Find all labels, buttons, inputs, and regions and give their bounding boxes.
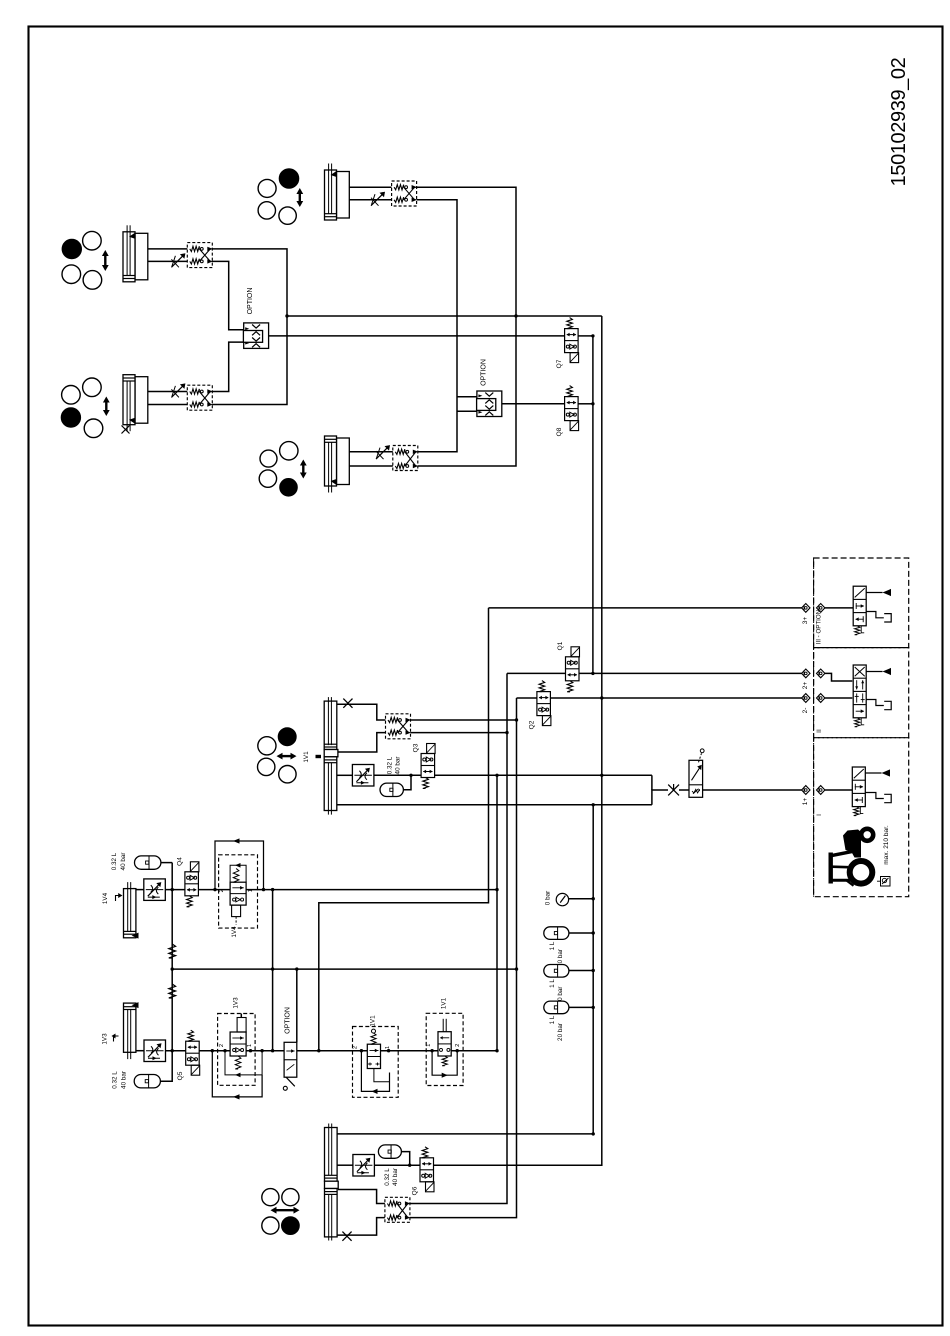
accumulator 0.32L cyl5: accumulator [380,756,403,796]
section II lever and tank [866,668,891,710]
wire: Q6 row from flow valve [337,1164,353,1166]
tractor valve block outer dashed boxes [814,558,909,648]
svg-text:1V1: 1V1 [303,751,310,763]
solenoid valve Q7 [556,318,579,369]
wire: cyl1 bottom port down to cyl4 upper port [417,200,457,452]
hose marks [169,944,176,958]
dash-dot separation line (tractor interface) [813,558,815,897]
svg-text:I: I [816,814,823,816]
wire: cross pilot vertical 1V4 to 1V3 row [272,890,274,1051]
svg-text:2: 2 [353,1046,359,1049]
cylinder 1V1 center suspension (tandem) [324,697,338,815]
wire: cyl6 mid port to throttle [338,1190,385,1204]
wire: 3+ line [489,607,802,609]
wire: common trunk y=316 [287,315,602,317]
solenoid valve Q3 [413,743,436,788]
accumulator 1L no2: accumulator [544,965,569,1005]
1V3 bypasses with check arrows [212,1051,262,1100]
plugged port X on 1+ line [668,784,679,795]
wire: 1V4 accumulator link [161,862,172,864]
svg-text:1V4: 1V4 [231,926,238,938]
wire: 3+ vertical down with jog to 1V3 row [319,608,489,1051]
wire: cyl5 throttle upper out [411,719,517,721]
svg-text:1V3: 1V3 [233,997,240,1009]
wire: vertical B P-line to 1V4 and 1V3 row ends [496,775,498,1051]
svg-text:1 L: 1 L [549,1015,556,1024]
wire: trunk right end down to 2- line [432,316,602,1165]
pressure gauge 0 bar [545,891,569,906]
svg-text:0.32 L: 0.32 L [387,756,394,774]
flow control cyl5: flow control valve [352,765,374,787]
svg-text:1V1: 1V1 [370,1015,377,1027]
svg-text:OPTION: OPTION [247,288,254,315]
plugged port X cyl5 top [343,699,352,708]
svg-text:1V3: 1V3 [102,1033,109,1045]
throttle check block cylinder 4: double throttle check valve [376,445,418,470]
svg-text:1V1: 1V1 [441,997,448,1009]
wire: cyl5 lower port to flow valve [337,774,353,776]
svg-text:2: 2 [455,1044,461,1047]
svg-text:max. 210 bar.: max. 210 bar. [883,825,890,865]
cylinder 1V3 tilt ram [124,1002,139,1059]
svg-text:1: 1 [247,1044,253,1047]
wheel group bottom suspension (unit 6) [262,1189,300,1235]
section III lever and tank [866,589,891,622]
wire: accumulator3 to trunk [569,1006,593,1008]
svg-text:Q3: Q3 [413,743,420,752]
wire: accumulator1 to trunk [569,932,593,934]
plugged port X cyl6 bottom [342,1232,351,1241]
svg-text:Q7: Q7 [556,359,563,368]
svg-text:40 bar: 40 bar [395,757,402,775]
1V4 outer bypass with check arrow [215,838,264,889]
throttle check block cylinder 2: double throttle check valve [171,243,212,268]
solenoid valve Q2 [529,681,551,730]
wire: OPTION lever valve top vertical [296,969,298,1042]
cylinder bottom suspension (tandem) [325,1124,339,1241]
solenoid valve Q8 [556,386,579,437]
wire: accumulator2 to trunk [569,970,593,972]
wire: cyl5 accumulator link [403,775,411,790]
svg-text:0 bar: 0 bar [545,891,552,905]
cylinder lower-left (folding cylinder) [123,375,148,432]
pilot check valve 1V1 (left dashed box) [353,1015,399,1097]
label cylinder 1V3 [102,1033,119,1045]
svg-text:2+: 2+ [802,682,809,690]
tractor valve section III [102,586,892,1044]
wire: OPTION2 left port stubs [457,396,477,398]
wire: cyl5 throttle lower out [411,732,508,734]
wire: cyl1 top port to trunk [417,187,516,316]
wire: OPTION2 out to Q8 [501,403,565,405]
wire: gauge to trunk [568,898,593,900]
wire: 1V3 pilot up line [240,1014,242,1018]
cylinder mid-right (folding cylinder) [325,436,350,493]
accumulator 1L no3: accumulator [544,1001,569,1041]
throttle check block cylinder 6: double throttle check valve [385,1197,411,1222]
wire: Q7 out to vertical [578,335,593,337]
accumulator 0.32L cyl 1V4: accumulator [111,852,161,870]
wire: vertical C cyl6 throttle lower branch [410,673,507,1203]
OPTION lever valve (transport lock) [283,1007,297,1090]
wire: cyl6 top port line L1 [337,1133,594,1135]
wire: cyl5 mid port to throttle [338,733,386,752]
svg-text:II: II [816,729,823,733]
wire: crossline y=969 [172,968,516,970]
couplings 2- [802,694,825,703]
cylinder upper-left (folding cylinder) [123,225,148,281]
accumulator 1L no1: accumulator [544,927,569,967]
anchor cross cylinder 3 rod end [122,426,130,434]
tractor valve section II [102,665,892,1045]
svg-text:Q2: Q2 [529,720,536,729]
couplings 3+ [802,604,825,613]
throttle check block cylinder 1: double throttle check valve [371,181,417,206]
label cylinder 1V1 (center) [303,751,321,763]
svg-text:40 bar: 40 bar [121,1071,128,1089]
section I lever and tank [865,769,891,802]
wire: OPTION1 out to Q7 [268,335,564,337]
wire: accumulator trunk F [592,805,594,1134]
wheel group upper-left (unit 2) [62,231,109,289]
svg-text:1: 1 [385,1046,391,1049]
wire: 1V4 main line [136,889,144,891]
svg-text:1+: 1+ [802,798,809,806]
wire: cyl3 ports to throttle block [148,391,188,393]
tractor hydraulic port icon [877,877,890,887]
svg-text:1 L: 1 L [549,941,556,950]
cylinder 1V4 tilt ram [124,882,139,939]
svg-text:2: 2 [219,889,225,892]
junction dots [285,314,288,317]
wire: cyl2 top port to trunk [212,249,287,316]
wire: 2- line [517,697,802,699]
tractor valve section I [102,751,892,1045]
svg-text:1V4: 1V4 [102,892,109,904]
flow control 1V3 row: flow control valve [144,1040,166,1062]
svg-text:40 bar: 40 bar [120,853,127,871]
wire: 1V3 main line [136,1050,144,1052]
wheel group center suspension (unit 5) [258,728,297,783]
svg-text:0.32 L: 0.32 L [112,1071,119,1089]
svg-text:1 L: 1 L [549,979,556,988]
svg-text:1: 1 [248,889,254,892]
relief valve with pilot (1+ line) [689,749,704,797]
wheel group top-center (unit 1) [258,169,303,224]
wheel group lower-left (unit 3) [61,378,109,438]
pilot check valve 1V3 (dashed box) [218,997,256,1085]
tractor icon [829,829,874,886]
wire: vertical D cyl6 throttle upper branch [410,698,517,1218]
svg-text:40 bar: 40 bar [392,1168,399,1186]
flow control 1V4 row: flow control valve [144,879,166,901]
svg-text:0.32 L: 0.32 L [111,852,118,870]
wire: cyl3 top port to OPTION1 [212,342,244,391]
svg-text:OPTION: OPTION [481,359,488,386]
wire: cyl1 ports to throttle block [349,186,392,188]
svg-text:OPTION: OPTION [284,1007,291,1034]
wire: trunk down to cyl4 bottom port [418,316,516,466]
wire: trunk down to cyl3 bottom port [212,316,287,405]
svg-text:Q6: Q6 [412,1186,419,1195]
throttle check block cylinder 3: double throttle check valve [171,383,212,410]
wire: 1+ line through X and relief valve [679,789,689,791]
svg-text:3+: 3+ [802,617,809,625]
svg-text:2: 2 [219,1044,225,1047]
wire: cyl2 bottom port to OPTION1 [212,261,244,329]
wire: cyl2 ports to throttle block [148,248,188,250]
pilot check valve 1V1 (right dashed box) [426,997,463,1085]
solenoid valve Q1 [557,641,580,692]
couplings 1+ [802,786,825,795]
flow control cyl6: flow control valve [353,1155,375,1177]
wire: vertical Q7/Q8 to 2+ line [592,336,594,674]
solenoid valve Q5 [177,1030,200,1080]
OPTION2 box: double pilot check valve OPTION [477,359,502,416]
svg-text:20 bar: 20 bar [557,1023,564,1041]
svg-text:Q5: Q5 [177,1071,184,1080]
svg-text:150102939_02: 150102939_02 [888,57,910,186]
pilot check valve 1V4 (dashed box) [219,855,258,938]
solenoid valve Q6 [412,1147,435,1196]
label cylinder 1V4 [102,892,123,904]
accumulator 0.32L cyl 1V3: accumulator [112,1071,161,1089]
wire: 1V3 accumulator link [160,1051,172,1082]
wheel group mid-center (unit 4) [259,442,307,496]
wire: Q8 out to vertical [578,403,593,405]
wire: P line (pressure) cyl5 lower chamber to bracket [374,774,421,776]
wire: hose line between 1V4/1V3 rows [171,863,173,1051]
svg-text:Q4: Q4 [177,857,184,866]
svg-text:III - OPTION: III - OPTION [816,610,823,644]
svg-text:Q1: Q1 [557,641,564,650]
wire: bracket bottom line cyl5 rod side [337,804,652,806]
wire: cyl6 bottom port via X plug to throttle [337,1218,385,1236]
couplings 2+ [802,669,825,678]
cylinder top-right (folding cylinder) [325,164,350,221]
wire: 2+ line [507,672,802,674]
wire: bracket merge to 1+ [651,775,653,790]
throttle check block cylinder 5: double throttle check valve [386,714,412,739]
solenoid valve Q4 [177,857,199,907]
svg-text:2-: 2- [802,708,809,714]
svg-text:Q8: Q8 [556,427,563,436]
wire: cyl5 top port to throttle [337,704,386,720]
OPTION1 box: double pilot check valve OPTION [243,288,268,349]
accumulator 0.32L cyl6: accumulator [378,1145,401,1186]
svg-text:0.32 L: 0.32 L [384,1168,391,1186]
svg-text:1: 1 [426,1044,432,1047]
wire: cyl4 ports to throttle block [349,451,393,453]
wire: cyl6 accumulator link [401,1152,409,1166]
